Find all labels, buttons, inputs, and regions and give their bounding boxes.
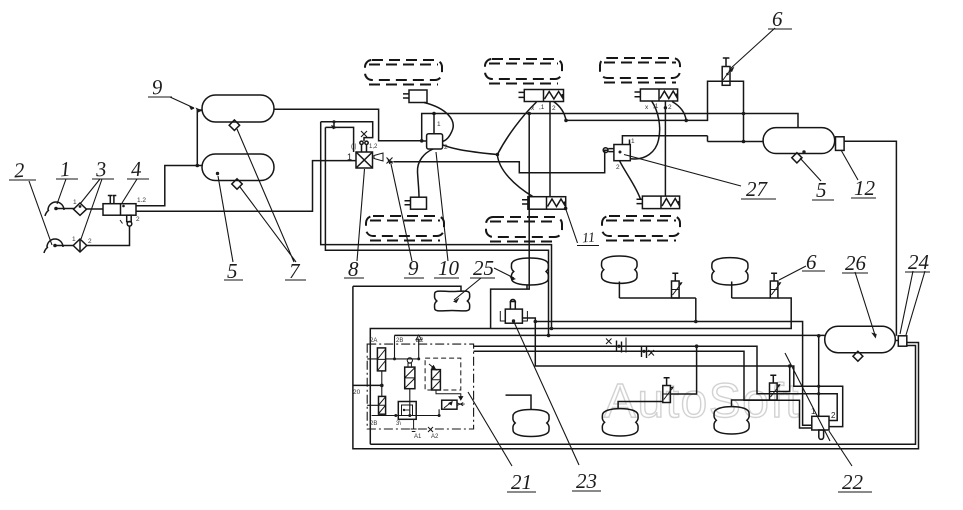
filter valve 3b — [73, 239, 87, 252]
junction dot riser / reservoir B — [196, 164, 200, 168]
svg-text:2: 2 — [136, 216, 140, 223]
label 2 — [13, 158, 26, 183]
coupling fitting F2 — [642, 346, 655, 358]
wire K1 to K5 vertical — [381, 371, 383, 397]
block exhaust symbol A1 — [411, 419, 417, 431]
wire corner to valve 10 left port — [422, 140, 427, 142]
svg-text:1: 1 — [437, 121, 441, 128]
junction dots regulator drop line — [742, 112, 746, 116]
svg-text:10: 10 — [438, 256, 460, 280]
trailer supply line v1 going down — [321, 122, 552, 329]
svg-text:x: x — [645, 104, 649, 111]
junction dot V4 on wrap line — [788, 364, 792, 368]
wire valve10 port2 to junction — [443, 145, 498, 155]
valve K1 — [377, 348, 385, 371]
junction dot supply line v1 on block loop — [550, 327, 554, 331]
leader label11 to brake chamber — [566, 209, 578, 244]
tank 5 left feed line — [622, 136, 763, 145]
svg-text:1: 1 — [59, 157, 71, 182]
leader label21 to control block — [468, 392, 512, 466]
block21 outer loop — [370, 298, 791, 444]
box K6 — [398, 402, 416, 420]
outer frame left — [353, 286, 919, 449]
block vent mark A2 — [428, 427, 433, 432]
bus T1 to valve 22 port1 — [535, 322, 812, 426]
air bellows top right — [712, 258, 748, 285]
junction dot valve10 left port — [420, 139, 424, 143]
valve 22 center feed from tank line — [818, 336, 820, 417]
feed stub into block 21 — [353, 384, 382, 386]
trailer control line v2 going down — [325, 127, 548, 335]
air bellows bottom left — [513, 410, 549, 437]
label 6 top — [772, 7, 783, 31]
hose mid top chamber port1 down to junction — [497, 102, 536, 155]
junction tick between L1 L2 — [333, 122, 335, 128]
junction dot hoses mid axle — [496, 153, 500, 157]
hose valve10 down to front bottom chamber — [417, 149, 433, 197]
valve 27 top stub — [629, 140, 631, 145]
hose rear top chamber port2 to bus B — [672, 102, 686, 121]
junction dot V3 on bus — [695, 344, 699, 348]
svg-text:9: 9 — [151, 75, 164, 100]
filter valve 3a — [74, 203, 87, 215]
valve K4 horizontal regulator — [442, 400, 465, 409]
pressure regulator 6 — [722, 58, 730, 85]
drain valve reservoir B — [232, 179, 242, 189]
svg-text:2: 2 — [616, 164, 620, 171]
wire valve4 upper output to reservoirs riser — [136, 166, 197, 206]
spring brake chamber mid top — [519, 90, 564, 102]
svg-text:A2: A2 — [431, 434, 439, 440]
leader label7 to both reservoir drain valves — [237, 129, 296, 262]
svg-text:2B: 2B — [370, 421, 377, 427]
svg-text:24: 24 — [908, 250, 930, 274]
label 5 right — [816, 178, 827, 202]
brake chamber front bottom — [405, 197, 427, 209]
wrap line 3 to valve22 left — [474, 351, 812, 428]
leader label9b to control cross — [391, 164, 412, 261]
wire V1 to bellows top middle stem — [619, 282, 695, 299]
svg-text:21: 21 — [511, 470, 532, 494]
arrowhead into reservoir A — [196, 108, 203, 113]
wire bellows bottom left up — [506, 395, 532, 409]
label 4 — [130, 157, 143, 182]
valve K5 — [379, 396, 386, 414]
leader label5 to reservoir B drain dot — [218, 176, 233, 262]
leader label23 to valve 23 — [514, 322, 579, 465]
leader label22 to valve 22 — [829, 431, 852, 466]
svg-text:1: 1 — [811, 407, 816, 416]
wire tank5 to fitting 12 — [834, 140, 837, 142]
label 7 — [289, 259, 301, 283]
junction dots bus B — [684, 119, 688, 123]
safety valve 24 — [898, 336, 907, 346]
junction dots block bottom wire — [394, 414, 397, 417]
hose valve27 to rear bottom chamber — [620, 161, 641, 200]
leader label1 to coupling head 1 — [57, 179, 66, 204]
reservoir B (rear axle tank) — [202, 154, 274, 181]
port labels valve 27 — [616, 138, 635, 171]
junction dot valve23 output — [534, 320, 538, 324]
drain valve reservoir A — [229, 120, 239, 130]
label 23 — [576, 469, 597, 493]
outer frame top edge — [353, 286, 461, 291]
label 21 — [511, 470, 532, 494]
port labels valve4 — [72, 197, 146, 245]
hose junction down to mid bottom chamber — [497, 155, 533, 197]
svg-text:5: 5 — [227, 259, 238, 283]
junction dot control line v2 — [547, 334, 551, 338]
line head2 to filter valve 3b — [55, 245, 73, 247]
port label 1 valve 8 — [347, 152, 352, 162]
svg-text:1: 1 — [347, 152, 352, 162]
port labels valve 10 — [437, 121, 448, 151]
valve 22 bottom stem — [819, 430, 824, 439]
leader label3 to valve3a and valve3b — [80, 179, 102, 239]
brake chamber front top — [403, 90, 427, 103]
junction dot bus A / valve23 supply — [527, 112, 531, 116]
block21 inner loop — [395, 334, 549, 336]
svg-text:3\: 3\ — [396, 421, 401, 427]
leader label25 to air bellows, arrows — [494, 268, 514, 278]
wire fitting12 to valve 24 — [844, 141, 896, 336]
leveling valve V2 top right — [770, 273, 781, 298]
leveling valve V1 top middle — [672, 273, 683, 298]
svg-text:7: 7 — [289, 259, 301, 283]
wheel mid bottom — [486, 217, 562, 242]
label 26 — [845, 251, 867, 275]
label 22 — [842, 470, 864, 494]
svg-text:2A: 2A — [370, 338, 377, 344]
release valve 23 — [500, 300, 527, 324]
valve 4 bottom port with circle — [120, 215, 132, 226]
svg-text:6: 6 — [806, 250, 817, 274]
svg-text:2B: 2B — [396, 338, 403, 344]
axle line rear — [664, 101, 666, 196]
port marks rear top chamber — [645, 103, 672, 111]
wire riser to reservoir B — [197, 165, 202, 167]
wire V2 to bellows top right stem — [732, 282, 771, 299]
label 9 top — [151, 75, 164, 100]
arrowhead on control line at valve 8 — [387, 159, 394, 164]
wire V3 to bellows bottom middle stem — [618, 402, 663, 409]
spring brake chamber rear bottom — [637, 196, 680, 209]
wire K3 to K4 — [436, 390, 461, 398]
block internal wires — [386, 335, 419, 359]
wire K2 stem down — [409, 389, 411, 416]
feed wire L2 to valve8 — [325, 127, 353, 152]
hose valve27 to rear top chamber — [630, 101, 659, 159]
tank 26 feed line — [549, 334, 825, 336]
label 20 — [353, 389, 361, 396]
svg-text:25: 25 — [473, 256, 494, 280]
wire valve3b to valve4 bottom port — [87, 226, 130, 246]
leader label25 to lower bellows, arrow — [454, 278, 481, 300]
label 25 — [473, 256, 494, 280]
valve 4 top pins — [108, 196, 117, 204]
relay valve 27 — [614, 145, 630, 161]
leveling valve V4 bottom right — [770, 375, 781, 400]
valve23 branch down to wrap line — [535, 322, 842, 427]
svg-text:27: 27 — [746, 177, 769, 201]
valve 27 left pipe with ring — [603, 148, 614, 153]
coupling fitting F1 on trailer lines — [606, 338, 626, 353]
svg-text:1: 1 — [72, 236, 76, 243]
leader label12 to fitting 12 — [841, 150, 858, 180]
air bellows bottom middle — [602, 409, 638, 436]
valve 8 right nozzle — [374, 153, 383, 161]
leader label6 top to regulator, arrow — [730, 28, 775, 69]
junction dot rear axle — [664, 106, 667, 109]
air bellows top middle — [602, 256, 638, 283]
wheel rear bottom — [602, 216, 680, 241]
trailer air tank 26 — [825, 326, 896, 353]
reservoir A (front axle tank) — [202, 95, 274, 122]
svg-text:2: 2 — [668, 104, 672, 111]
line head1 to filter valve 3a — [56, 208, 74, 210]
wire V4 up to wrap bus — [777, 366, 790, 392]
junction dot K1-K5 wire — [380, 384, 383, 387]
drain valve tank 26 — [853, 351, 863, 361]
control line from valve 8 to valve 27 — [394, 150, 609, 173]
wire valve3a to brake valve 4 — [87, 208, 104, 210]
wire V1 down to bus — [695, 298, 697, 322]
valve K3 in dashed box — [425, 358, 461, 390]
tiny marks beside valve8 pins — [351, 144, 378, 150]
drain valve tank 5 — [792, 153, 802, 163]
feed wire L1 from trailer line to valve8 pins — [321, 122, 373, 141]
junction dot V1 on bus T1 — [694, 320, 698, 324]
svg-text:1: 1 — [631, 138, 635, 145]
svg-text:1,2: 1,2 — [369, 144, 378, 150]
coupling head 2 — [44, 239, 63, 253]
svg-text:1: 1 — [73, 199, 77, 206]
tank 5 (condensation tank) — [763, 128, 835, 154]
leader label8 to cross valve bottom — [357, 169, 365, 261]
spring brake chamber mid bottom — [522, 197, 566, 210]
block labels — [370, 338, 439, 440]
leader label4 to brake valve 4 — [122, 179, 137, 203]
riser to reservoir A with junction dot — [197, 110, 202, 166]
trailer control valve 8 (cross valve) — [356, 152, 373, 168]
svg-text:11: 11 — [582, 231, 596, 247]
label 6 right — [806, 250, 817, 274]
main air bus from reservoir A — [274, 109, 798, 141]
valve 22 body — [812, 416, 829, 430]
label 3 — [94, 157, 107, 182]
svg-text:2: 2 — [831, 411, 836, 420]
junction dots block top wire — [393, 357, 396, 360]
wire tank26 to valve 24 — [895, 340, 898, 342]
vent cross right of valve 8 — [387, 158, 393, 164]
leader label2 to coupling head 2 — [29, 181, 52, 245]
svg-text:9: 9 — [408, 256, 419, 280]
svg-text:5: 5 — [816, 178, 827, 202]
delta2 symbol — [416, 335, 422, 340]
svg-text:3: 3 — [94, 157, 107, 182]
valve 8 top pins — [360, 141, 368, 152]
port labels valve 22 — [811, 407, 836, 420]
label 27 — [746, 177, 769, 201]
svg-text:1.2: 1.2 — [137, 197, 146, 204]
bus B to regulator loop — [566, 81, 744, 141]
valve K2 with button — [405, 358, 415, 389]
svg-text:2: 2 — [13, 158, 26, 183]
label 1 — [59, 157, 71, 182]
block21 loop bottom return wire — [370, 346, 915, 445]
label 11 — [582, 231, 596, 247]
leader label27 to valve 27 — [624, 155, 741, 187]
svg-text:26: 26 — [845, 251, 867, 275]
label 5 left — [227, 259, 238, 283]
wire valve23 to bus T1 — [522, 318, 535, 322]
svg-text:Δ2: Δ2 — [416, 338, 424, 344]
leader label10 to valve 10 — [436, 152, 448, 261]
block bottom wire — [372, 409, 440, 415]
wheel front top — [365, 60, 442, 85]
label 9 bottom — [408, 256, 419, 280]
svg-text:2: 2 — [552, 105, 556, 112]
wire block left edge stubs — [367, 359, 378, 405]
svg-text:6: 6 — [772, 7, 783, 31]
K5 bottom to bottom wire — [381, 414, 383, 415]
label 10 — [438, 256, 460, 280]
air bellows bottom right — [714, 407, 749, 434]
svg-text:20: 20 — [353, 389, 361, 396]
junction dot bus B start — [564, 119, 568, 123]
fitting 12 — [836, 137, 845, 151]
wire V4 to bellows bottom right stem — [732, 400, 770, 406]
leader label24 to valve 24, two lines — [900, 271, 925, 335]
junction dot block feed — [380, 384, 384, 388]
valve23 supply hook from main bus — [491, 114, 530, 329]
coupling head 1 — [45, 202, 64, 216]
air bellows 25 pair lower left — [435, 291, 470, 311]
relay valve 10 — [427, 134, 443, 149]
leader label5 right to tank5 drain — [800, 158, 821, 181]
leader label6 right to leveling valve — [779, 266, 806, 280]
air bellows 25 pair upper — [511, 258, 548, 285]
diagonal line upper right of valve 22 — [785, 353, 830, 441]
svg-text:4: 4 — [130, 157, 143, 182]
svg-text:23: 23 — [576, 469, 597, 493]
label 24 — [908, 250, 930, 274]
svg-text:22: 22 — [842, 470, 864, 494]
hose mid top chamber port2 to bus B — [554, 102, 567, 121]
wrap line 2 to valve22 — [474, 346, 838, 420]
leader label9 to riser, arrow — [170, 97, 194, 108]
leader label26 to tank 26, arrow — [855, 272, 875, 335]
hose front chamber to valve 10 — [424, 103, 453, 142]
wheel rear top — [600, 58, 680, 83]
junction dots valve 22 center feed — [817, 334, 821, 338]
wheel mid top — [485, 59, 562, 84]
axle line mid — [549, 102, 551, 197]
wheel front bottom — [366, 216, 444, 241]
svg-text:2: 2 — [88, 238, 92, 245]
label 12 — [854, 176, 876, 200]
wire valve4 lower output to cross valve port 1 — [136, 161, 356, 212]
leveling valve V3 bottom middle — [663, 378, 674, 403]
svg-text:,1: ,1 — [539, 104, 545, 111]
brake valve 4 body — [103, 204, 136, 216]
control block 21 dash-dot border — [367, 344, 473, 429]
label 8 — [348, 257, 359, 281]
port marks mid top chamber — [531, 104, 556, 112]
valve 10 top pin to bus — [433, 114, 435, 134]
vent cross above valve 8 — [361, 131, 367, 137]
svg-text:A1: A1 — [414, 434, 422, 440]
wire V3 up to bus — [670, 346, 696, 394]
spring brake chamber rear top — [635, 89, 678, 101]
wire bellows upper to valve23 loop — [526, 285, 528, 290]
